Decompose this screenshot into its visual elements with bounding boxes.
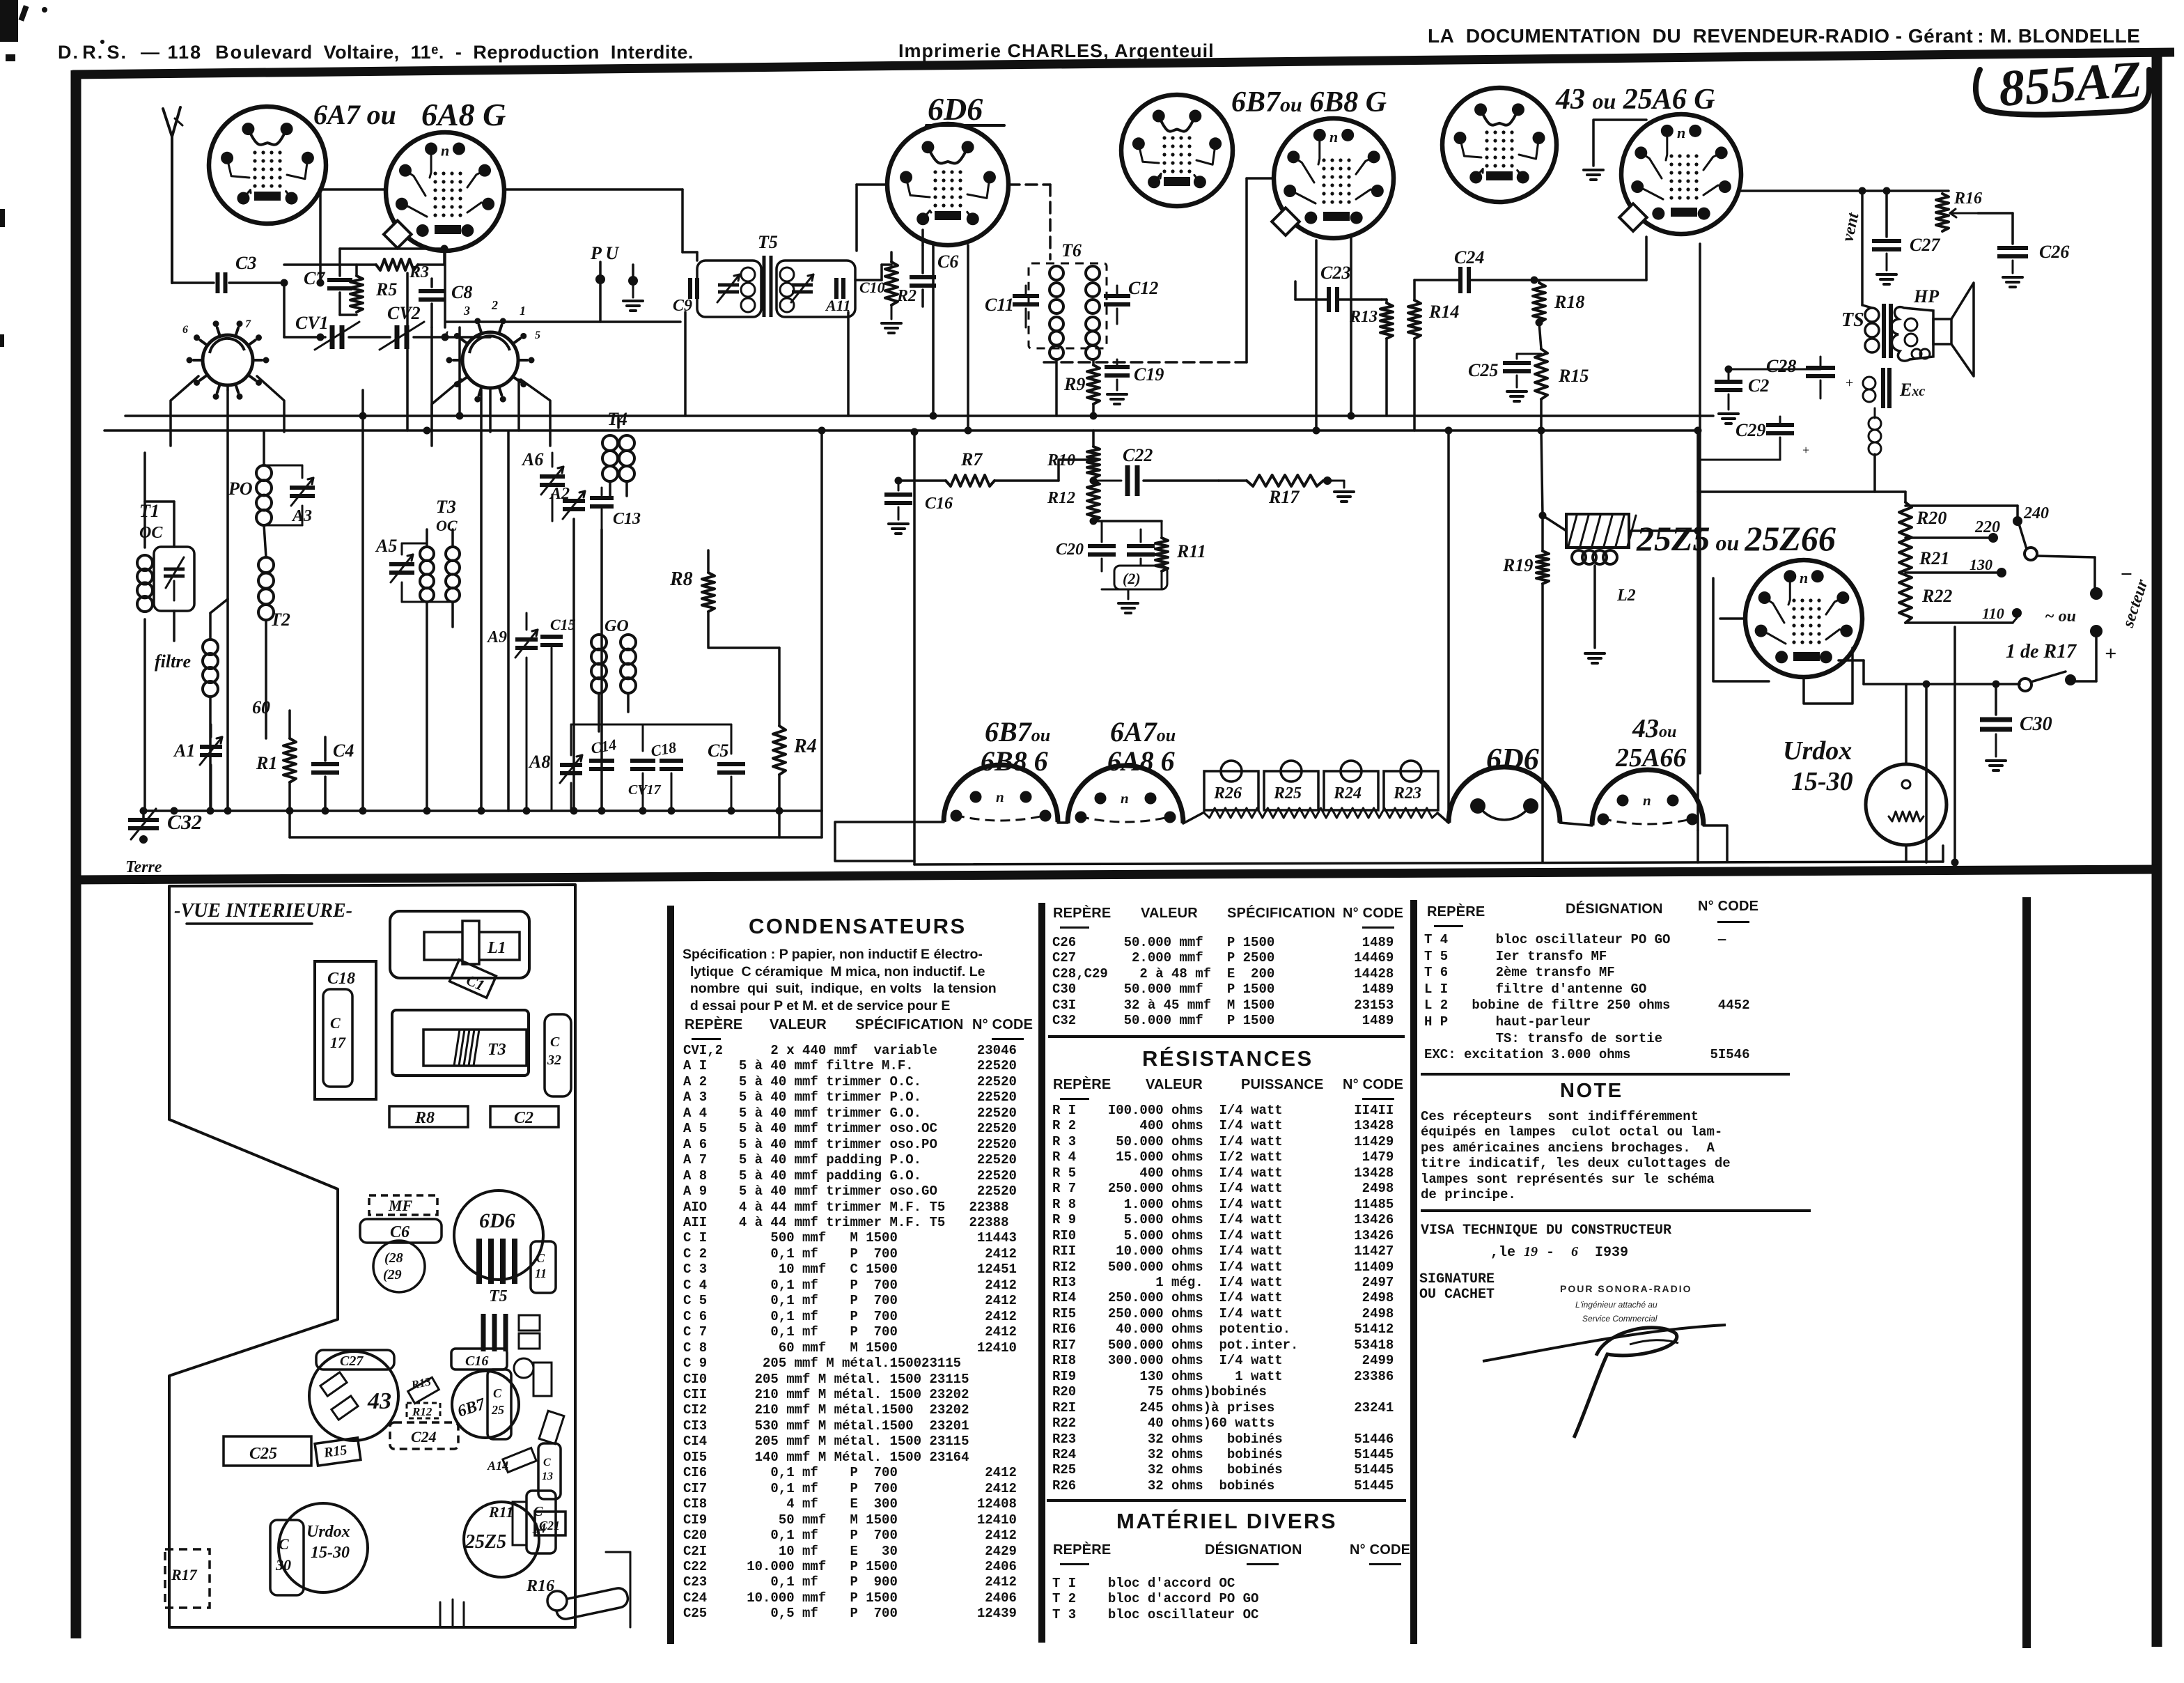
trimmer A1 box xyxy=(154,547,194,611)
svg-text:C8: C8 xyxy=(451,282,472,302)
svg-text:+: + xyxy=(2105,642,2116,665)
svg-text:A5: A5 xyxy=(375,536,397,556)
svg-text:R17: R17 xyxy=(1268,487,1300,507)
svg-text:7: 7 xyxy=(245,318,251,330)
wire xyxy=(504,189,682,252)
wire xyxy=(521,380,550,446)
wire xyxy=(857,185,887,251)
wire socket row box xyxy=(835,822,944,861)
svg-text:R4: R4 xyxy=(793,736,817,757)
svg-text:C15: C15 xyxy=(550,616,576,633)
transformer T6 outline xyxy=(1029,263,1107,348)
svg-text:220: 220 xyxy=(1974,518,2000,536)
capacitor C2 xyxy=(1715,369,1769,424)
capacitor C19 xyxy=(1105,359,1164,404)
capacitors C28 C29 on chassis xyxy=(373,1241,425,1292)
capacitor C3 xyxy=(218,253,257,293)
tube socket osc section xyxy=(187,320,270,400)
wire xyxy=(1696,431,1699,830)
resistor R5 xyxy=(350,276,397,312)
handwritten model box 855AZ xyxy=(1976,51,2149,118)
svg-text:C6: C6 xyxy=(390,1223,409,1241)
svg-text:6B8 6: 6B8 6 xyxy=(981,745,1048,777)
svg-text:6: 6 xyxy=(182,324,188,336)
resistor R8 xyxy=(669,550,779,648)
svg-text:C25: C25 xyxy=(1468,360,1498,380)
svg-text:TS: TS xyxy=(1841,309,1864,331)
block T3 xyxy=(392,1010,529,1076)
inductor T3 primary xyxy=(402,529,434,811)
inductor L1 xyxy=(203,599,228,811)
svg-text:C: C xyxy=(543,1457,551,1468)
wire xyxy=(1696,830,1699,862)
wire xyxy=(284,245,448,265)
tube 43 on chassis xyxy=(309,1351,398,1441)
capacitor C26 xyxy=(1997,242,2069,287)
signature stroke xyxy=(1483,1325,1726,1438)
table divider bar 3 xyxy=(1410,900,1417,1644)
terminal plus xyxy=(2090,625,2116,665)
wire tap 240 xyxy=(1905,504,2049,526)
svg-text:R11: R11 xyxy=(488,1503,513,1521)
capacitor C22 xyxy=(1090,445,1219,496)
svg-text:R8: R8 xyxy=(414,1109,435,1127)
trimmer A10 box xyxy=(697,261,761,317)
wire xyxy=(1534,237,1646,280)
capacitor C32 xyxy=(128,809,202,844)
svg-text:C23: C23 xyxy=(1320,263,1350,283)
wire xyxy=(911,428,919,821)
svg-text:A6: A6 xyxy=(521,449,543,470)
svg-text:25Z5: 25Z5 xyxy=(465,1531,506,1553)
inductor field coil xyxy=(1869,408,1881,492)
small parts right of 6B7 xyxy=(487,1358,564,1473)
wire xyxy=(574,519,602,811)
svg-text:A11: A11 xyxy=(825,297,850,314)
tube U4 43 socket (old style) xyxy=(1442,88,1557,202)
svg-text:R1: R1 xyxy=(256,753,277,773)
svg-text:30: 30 xyxy=(275,1556,291,1574)
wire xyxy=(489,388,492,432)
svg-text:C25: C25 xyxy=(249,1445,277,1463)
svg-text:43ou: 43ou xyxy=(1632,714,1676,743)
tube U3 6B7 socket (old style) xyxy=(1121,95,1233,206)
svg-text:R10: R10 xyxy=(1047,451,1075,470)
svg-text:OC: OC xyxy=(436,517,458,534)
wire xyxy=(444,251,446,327)
block L1/C1 xyxy=(390,911,529,998)
block C24 dashed on chassis xyxy=(390,1422,458,1449)
trimmer A11 box xyxy=(777,261,855,317)
labels R13 R12 on chassis xyxy=(407,1374,440,1418)
wire xyxy=(257,376,284,432)
svg-text:C: C xyxy=(330,1014,341,1032)
wire xyxy=(361,390,364,811)
svg-text:C26: C26 xyxy=(2039,242,2069,262)
wire xyxy=(1350,235,1352,416)
wire xyxy=(172,279,288,287)
block R16 cylinder on chassis xyxy=(526,1577,630,1621)
loudspeaker HP xyxy=(1891,283,1974,376)
label 6A7 ou 6A8G xyxy=(1107,716,1176,777)
svg-text:2: 2 xyxy=(491,298,498,312)
svg-text:C27: C27 xyxy=(1910,235,1940,255)
resistor R12 xyxy=(1047,481,1100,521)
svg-text:C: C xyxy=(279,1535,289,1553)
block R8 xyxy=(389,1106,468,1127)
resistor R7 xyxy=(898,449,1059,486)
svg-text:T3: T3 xyxy=(487,1041,506,1059)
inductor TS primary xyxy=(1862,305,1879,352)
resistor R9 xyxy=(1063,359,1100,416)
transformer T6 on chassis xyxy=(483,1314,540,1351)
svg-text:vent: vent xyxy=(1839,210,1862,243)
block C18 xyxy=(315,961,376,1099)
svg-text:C21: C21 xyxy=(539,1519,560,1533)
tube U4b 25A6G socket (octal) xyxy=(1619,114,1741,234)
wire xyxy=(1905,684,1908,764)
svg-text:C4: C4 xyxy=(333,740,354,761)
wire xyxy=(284,336,490,339)
tube socket 6B7/6B8G (bottom view) xyxy=(944,765,1058,822)
border frame right xyxy=(2152,49,2162,1647)
table column 1: CONDENSATEURS xyxy=(749,914,967,939)
inductor GO xyxy=(591,617,636,731)
trimmer A5 xyxy=(375,536,414,602)
svg-text:C27: C27 xyxy=(340,1354,364,1369)
wire xyxy=(226,385,229,811)
svg-text:C29: C29 xyxy=(1735,420,1765,440)
tube socket 6D6 (bottom view) xyxy=(1449,767,1560,823)
svg-text:C30: C30 xyxy=(2020,713,2052,735)
svg-text:C20: C20 xyxy=(1056,541,1084,559)
wire xyxy=(1059,460,1093,481)
inductor T5 windings xyxy=(741,267,794,312)
svg-text:MF: MF xyxy=(388,1197,413,1214)
inductor T2 xyxy=(258,525,290,630)
svg-text:R18: R18 xyxy=(1554,292,1584,312)
label 6A7 ou xyxy=(313,99,396,130)
svg-text:C22: C22 xyxy=(1123,445,1153,465)
svg-text:Exc: Exc xyxy=(1899,380,1925,400)
capacitor C17 xyxy=(628,761,683,811)
wire xyxy=(967,245,969,431)
wire ground bus xyxy=(143,809,822,812)
svg-text:L2: L2 xyxy=(1616,587,1636,605)
svg-text:R24: R24 xyxy=(1333,784,1362,802)
svg-text:(28: (28 xyxy=(384,1250,403,1266)
svg-text:6D6: 6D6 xyxy=(928,91,983,127)
label 43 ou 25A6G xyxy=(1555,84,1715,116)
svg-text:A14: A14 xyxy=(487,1459,508,1473)
wire xyxy=(265,620,267,738)
svg-text:C9: C9 xyxy=(673,297,692,315)
svg-text:R16: R16 xyxy=(1953,189,1982,208)
svg-text:C18: C18 xyxy=(327,970,355,988)
transformer TS core xyxy=(1884,304,1891,358)
wire xyxy=(1315,240,1318,431)
transformer T4 label xyxy=(607,409,627,429)
svg-text:CV1: CV1 xyxy=(295,313,329,333)
capacitor C6 xyxy=(910,245,958,307)
resistor R1 xyxy=(256,711,296,837)
capacitor C5 xyxy=(708,724,745,811)
svg-text:R14: R14 xyxy=(1428,302,1459,322)
svg-text:6B7ou 6B8 G: 6B7ou 6B8 G xyxy=(1231,86,1387,118)
capacitor C8 xyxy=(419,279,472,327)
table divider bar 2 xyxy=(1038,903,1045,1643)
svg-text:32: 32 xyxy=(547,1053,561,1068)
capacitor C24 xyxy=(1414,247,1538,293)
svg-text:HP: HP xyxy=(1913,286,1940,307)
resistor R18 xyxy=(1533,280,1584,349)
wire xyxy=(1698,366,1820,460)
svg-text:(2): (2) xyxy=(1123,570,1141,587)
svg-text:−: − xyxy=(2120,563,2132,586)
svg-text:n: n xyxy=(1643,792,1651,809)
svg-text:5: 5 xyxy=(535,329,540,341)
svg-text:C16: C16 xyxy=(925,495,953,513)
wire xyxy=(145,502,174,641)
border frame top xyxy=(72,52,2174,75)
svg-text:T1: T1 xyxy=(139,501,159,521)
wire xyxy=(1804,648,1852,704)
header middle: printer xyxy=(898,40,1215,62)
wire bus riser xyxy=(820,432,823,811)
inductor T6 primary xyxy=(1050,266,1063,359)
capacitor C20 xyxy=(1056,521,1116,571)
resistor R15 xyxy=(1535,349,1589,431)
wire socket row bus xyxy=(914,822,1943,864)
label 6D6 xyxy=(926,91,1004,127)
svg-text:R21: R21 xyxy=(1919,548,1949,568)
wire xyxy=(1720,617,1745,620)
svg-text:C2: C2 xyxy=(514,1109,533,1127)
switch 1 de R17 xyxy=(2006,641,2077,691)
svg-text:R26: R26 xyxy=(1213,784,1242,802)
tube 6B7 on chassis xyxy=(452,1371,519,1438)
block C-tall on chassis xyxy=(538,1443,561,1499)
capacitor C7 xyxy=(304,249,352,315)
transformer TS secondary core xyxy=(1883,368,1889,408)
svg-text:110: 110 xyxy=(1982,605,2004,622)
wire xyxy=(1090,518,1162,614)
svg-text:T5: T5 xyxy=(489,1287,508,1305)
wire xyxy=(517,380,520,431)
block C25 on chassis xyxy=(224,1436,311,1466)
svg-text:R7: R7 xyxy=(960,449,983,470)
resistor R2 xyxy=(882,252,916,333)
svg-text:n: n xyxy=(1800,569,1808,587)
wire xyxy=(684,312,687,416)
svg-text:25Z5 ou 25Z66: 25Z5 ou 25Z66 xyxy=(1636,519,1836,558)
svg-text:25: 25 xyxy=(491,1403,504,1417)
wire xyxy=(456,327,464,420)
resistor R11 xyxy=(1155,521,1206,589)
svg-text:P U: P U xyxy=(590,243,619,263)
wire xyxy=(446,320,680,323)
wire xyxy=(507,432,510,811)
header left: D.R.S. address line xyxy=(58,42,694,63)
antenna xyxy=(163,107,182,283)
resistor R19 xyxy=(1502,512,1549,862)
svg-text:60: 60 xyxy=(252,697,270,718)
block C11 on chassis xyxy=(531,1241,556,1293)
trimmer A2 xyxy=(549,485,585,519)
svg-text:GO: GO xyxy=(604,617,629,635)
svg-text:A2: A2 xyxy=(549,485,570,503)
trimmer A6 xyxy=(521,449,565,521)
svg-text:R15: R15 xyxy=(322,1443,348,1461)
block C6 xyxy=(360,1219,442,1243)
svg-text:R13: R13 xyxy=(1349,308,1378,326)
svg-text:C11: C11 xyxy=(985,295,1014,315)
tube socket 43/25A6G (bottom view) xyxy=(1592,770,1703,825)
wire xyxy=(1951,627,1959,867)
resistor R4 xyxy=(773,648,817,837)
label Terre xyxy=(125,858,162,876)
svg-text:OC: OC xyxy=(139,524,163,542)
svg-text:PO: PO xyxy=(228,479,253,499)
wire xyxy=(402,601,453,603)
trimmer A8 xyxy=(528,724,582,811)
resistor R20-R21-R22 tapped xyxy=(1899,502,1952,623)
svg-text:R13: R13 xyxy=(409,1374,432,1392)
transformer T5 core xyxy=(764,256,771,317)
transformer T5 on chassis xyxy=(479,1239,515,1305)
wire xyxy=(847,312,850,416)
wire xyxy=(571,724,731,726)
resistor R16 potentiometer xyxy=(1936,189,2013,244)
svg-text:C19: C19 xyxy=(1134,364,1164,385)
wire xyxy=(1839,660,1864,684)
tube U2 6D6 socket (old style) xyxy=(887,124,1008,245)
wire xyxy=(1698,492,1905,502)
svg-text:R19: R19 xyxy=(1502,555,1533,575)
svg-text:T3: T3 xyxy=(436,497,456,517)
svg-text:C: C xyxy=(550,1034,560,1050)
wire xyxy=(1713,578,1769,681)
svg-text:13: 13 xyxy=(542,1471,553,1482)
header right: publication title xyxy=(1428,25,2140,47)
wire xyxy=(430,327,433,416)
wire xyxy=(1042,178,1274,362)
svg-text:Terre: Terre xyxy=(125,858,162,876)
ground xyxy=(1584,120,1646,180)
svg-text:-VUE INTERIEURE-: -VUE INTERIEURE- xyxy=(174,900,352,922)
svg-text:25A66: 25A66 xyxy=(1615,743,1686,773)
block C30 on chassis xyxy=(270,1520,304,1595)
wire power bus xyxy=(1864,681,2020,688)
tube U1b 6A8G socket (octal) xyxy=(384,132,504,251)
wire xyxy=(1861,191,1864,305)
wire xyxy=(921,230,924,245)
svg-text:A9: A9 xyxy=(486,628,507,646)
wire xyxy=(2070,631,2096,681)
rubber stamp text xyxy=(1560,1283,1692,1294)
svg-text:R5: R5 xyxy=(375,279,397,300)
svg-text:R11: R11 xyxy=(1176,541,1206,561)
svg-text:A8: A8 xyxy=(528,752,550,772)
svg-text:6D6: 6D6 xyxy=(1486,742,1539,776)
block C21 on chassis xyxy=(535,1512,565,1535)
tube 6D6 on chassis xyxy=(454,1190,543,1280)
svg-text:C5: C5 xyxy=(708,740,728,761)
block R15 on chassis xyxy=(315,1438,361,1466)
svg-text:C2: C2 xyxy=(1748,375,1769,396)
svg-text:C3: C3 xyxy=(235,253,256,273)
label filtre xyxy=(155,651,191,672)
wire xyxy=(932,245,935,416)
svg-text:n: n xyxy=(996,789,1004,805)
trimmer A3 xyxy=(264,465,315,525)
resistor R13 xyxy=(1349,300,1393,416)
svg-text:C13: C13 xyxy=(613,510,641,528)
svg-text:C6: C6 xyxy=(937,251,958,272)
svg-text:A1: A1 xyxy=(173,740,195,761)
svg-text:15-30: 15-30 xyxy=(1791,767,1853,796)
svg-text:43 ou 25A6 G: 43 ou 25A6 G xyxy=(1555,84,1715,116)
wire xyxy=(1699,244,1701,773)
capacitor CV1 xyxy=(295,313,359,350)
svg-text:Urdox: Urdox xyxy=(306,1523,350,1541)
svg-text:855AZ: 855AZ xyxy=(1997,51,2144,118)
inductor T3 secondary xyxy=(446,529,460,627)
wire xyxy=(1058,812,1449,823)
wire xyxy=(1543,515,1566,531)
block R11 C14 on chassis xyxy=(488,1491,556,1553)
svg-text:+: + xyxy=(1802,443,1809,457)
svg-text:C28: C28 xyxy=(1766,356,1796,376)
resistor R14 xyxy=(1408,280,1459,431)
inductor excitation winding xyxy=(1863,377,1925,402)
svg-text:R20: R20 xyxy=(1916,508,1947,528)
svg-text:6A8 G: 6A8 G xyxy=(421,97,506,132)
svg-text:R12: R12 xyxy=(412,1405,432,1418)
svg-text:Urdox: Urdox xyxy=(1783,736,1852,766)
svg-text:T5: T5 xyxy=(758,232,778,252)
block C16 on chassis xyxy=(451,1349,507,1370)
tube U1 6A7 socket (old style) xyxy=(209,107,326,224)
tube socket 6A7/6A8G (bottom view) xyxy=(1068,766,1183,823)
svg-text:n: n xyxy=(1329,128,1338,146)
inductor PO xyxy=(228,432,272,525)
wire xyxy=(340,249,444,315)
svg-text:43: 43 xyxy=(367,1388,391,1414)
block C2 xyxy=(490,1106,559,1127)
svg-text:6B7: 6B7 xyxy=(455,1395,488,1420)
svg-text:130: 130 xyxy=(1969,556,1992,573)
svg-text:6B7ou: 6B7ou xyxy=(985,716,1050,747)
svg-text:C24: C24 xyxy=(411,1428,437,1445)
label 6A8G xyxy=(421,97,506,132)
capacitor C16 xyxy=(884,477,953,534)
inductor T1 xyxy=(137,453,153,811)
label VUE INTERIEURE xyxy=(174,900,352,924)
wire xyxy=(882,265,891,280)
capacitor C28 xyxy=(1766,356,1853,398)
wire tap 110 xyxy=(1905,605,2022,623)
pin number labels xyxy=(182,298,540,341)
svg-text:11: 11 xyxy=(535,1266,547,1280)
tube U5 25Z5 socket (octal) xyxy=(1745,560,1862,677)
inductor L2 (filter choke) xyxy=(1566,514,1702,605)
capacitor C10 xyxy=(836,278,885,299)
block C27 on chassis xyxy=(316,1350,394,1370)
svg-text:T6: T6 xyxy=(1061,240,1082,261)
transformer T6 label xyxy=(1061,240,1082,261)
svg-text:C32: C32 xyxy=(167,811,202,834)
